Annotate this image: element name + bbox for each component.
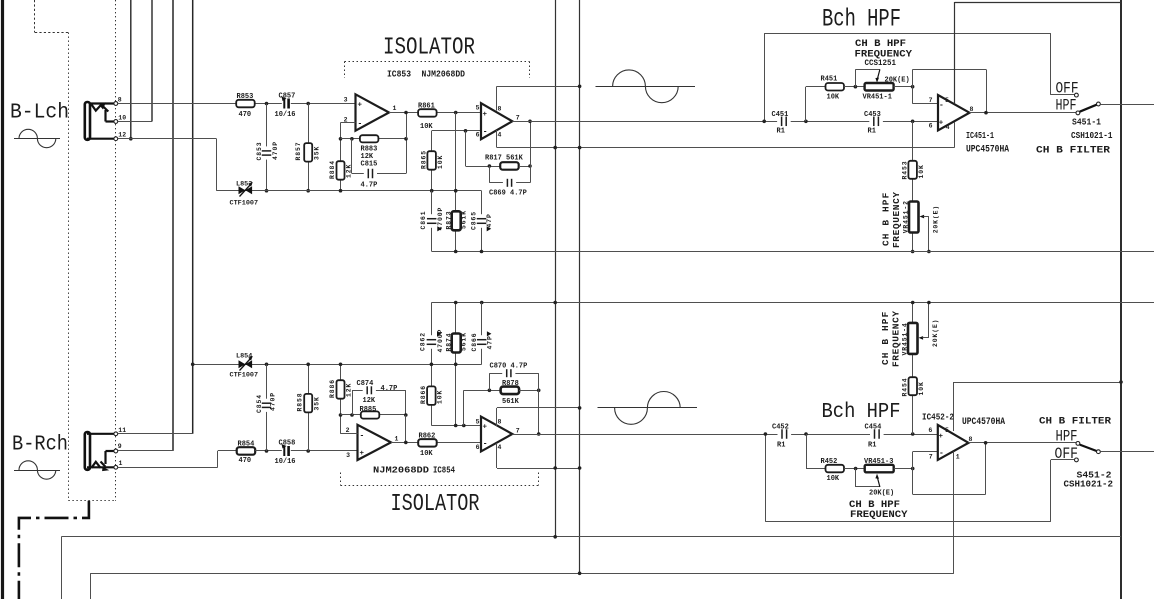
wire R451 to VR451-1 [844,86,865,88]
node dot C874 left [350,413,354,417]
wire output4 column [538,390,540,434]
wire pin12 line east [118,138,217,140]
wire R865 column [431,131,433,191]
wire op1 inverting input [341,122,356,124]
svg-text:NJM2068DD: NJM2068DD [422,70,466,80]
capacitor C865 47P [471,211,494,231]
supply vertical x=555.2 [555,0,557,537]
resistor R874 561K [445,332,467,352]
svg-text:10K: 10K [918,381,925,395]
node dot bus3 x555 [553,301,557,305]
pin 6 label [476,132,480,139]
pin 5 label ic452 [945,427,949,434]
wire R454 column [912,303,914,435]
resistor R452 10K [821,458,845,483]
svg-text:IC854: IC854 [433,466,455,476]
wire R857 column x=308.2 [308,104,310,191]
node dot C853 bottom [265,189,269,193]
wire common east bottom [1100,451,1154,453]
dotted bottom edge y=500.8 [68,500,115,502]
op-amp U-IC854b triangle [481,417,512,452]
capacitor C861 4700P column [431,191,433,252]
wire R866 column [431,303,433,426]
svg-text:C865: C865 [471,211,478,230]
wire R453 column [912,121,914,251]
label CH B HPF bottom [849,499,900,511]
capacitor C854 470P [256,392,277,413]
pin 1 label [119,460,123,467]
pin 5 label [945,97,949,104]
svg-text:CTF1007: CTF1007 [230,372,259,380]
svg-text:10/16: 10/16 [275,458,296,466]
plus sign ic452 [939,433,944,441]
svg-text:7: 7 [929,97,933,104]
svg-text:C815: C815 [361,160,378,168]
wire VR451-1 right [894,86,913,88]
trimmer coil L854 CTF1007 [230,353,259,380]
svg-text:1: 1 [393,105,397,112]
svg-text:5: 5 [945,97,949,104]
pin 9 label [118,443,122,450]
svg-text:6: 6 [476,444,480,451]
resistor R862 10K [418,432,437,458]
wire op2 inverting line y=130.8 [432,130,481,132]
svg-text:C857: C857 [279,93,296,101]
pin 8 stub up [496,86,498,110]
wire R817 right [519,166,530,168]
dotted vertical x=68.4 [68,33,70,501]
svg-text:CSH1021-1: CSH1021-1 [1071,131,1113,141]
label ISOLATOR top [383,35,475,62]
wire C853 column x=266.5 [266,104,268,191]
svg-text:NJM2068DD: NJM2068DD [373,466,430,476]
svg-text:B-Lch: B-Lch [10,102,69,125]
trimmer VR451-4 [901,319,939,356]
svg-text:C452: C452 [772,424,789,432]
op-amp U-IC854a triangle [358,425,392,460]
svg-text:5: 5 [476,418,480,425]
node dot R451 riser [804,120,808,124]
label FREQUENCY rotated bottom [891,310,902,367]
node dot at x=455.7 [454,111,458,115]
svg-text:FREQUENCY: FREQUENCY [891,191,902,248]
svg-text:-: - [358,119,363,128]
svg-text:7: 7 [516,115,520,122]
capacitor C857 (electrolytic) [275,93,296,119]
node dot C870 left [488,389,492,393]
dotted box ISOLATOR top [345,62,530,79]
svg-text:R873: R873 [445,211,452,230]
capacitor C870 4.7P [490,362,528,377]
svg-text:VR451-4: VR451-4 [901,322,908,355]
svg-text:R878: R878 [502,380,519,388]
wire pin7 line bottom [913,451,938,453]
svg-text:8: 8 [970,106,974,113]
resistor R883 12K [360,135,379,168]
node dot at C853 top [265,102,269,106]
wire riser to R854 line [218,451,237,468]
node dot feedback3 tee [339,413,343,417]
jack J-BL pin 8 lead [90,102,114,104]
svg-text:561K: 561K [502,398,520,406]
label CSH1021-1 [1071,131,1113,141]
label B-Lch [10,102,69,125]
svg-text:11: 11 [118,427,126,434]
op-amp U-IC853b triangle [481,103,512,139]
resistor R884 12K [329,160,353,180]
minus sign op1 [358,119,363,128]
wire rail y=382 [954,382,1121,384]
wire feedback3 to output [405,415,407,442]
svg-text:8: 8 [498,105,502,112]
svg-text:C451: C451 [772,111,789,119]
pin 5 stub ic452 [953,382,955,431]
node dot V+ rail x579 [578,85,582,89]
trimmer coil L853 CTF1007 [230,181,259,208]
svg-text:9: 9 [118,443,122,450]
pin 7 label [516,115,520,122]
wire main signal y=103.5 [118,103,356,105]
svg-text:3: 3 [346,452,350,459]
capacitor C861 plates [420,207,444,232]
wire ground bus y=190.7 [217,190,482,192]
svg-text:R886: R886 [329,379,336,398]
svg-text:35K: 35K [314,396,321,410]
wire V- rail bottom y=468 [497,468,580,470]
minus sign op4 [483,440,488,449]
svg-text:R866: R866 [420,385,427,404]
node dot feedback tee [339,137,343,141]
svg-text:C853: C853 [256,142,263,161]
wire vertical x=173 to pin9 line [172,0,174,451]
dotted box ISOLATOR bottom [341,473,539,486]
pin 2 label [344,116,348,123]
pin 11 label [118,427,126,434]
node dot wiper tee [854,85,858,89]
svg-text:VR451-1: VR451-1 [863,93,892,101]
svg-text:FREQUENCY: FREQUENCY [855,49,913,61]
label CH B HPF top [855,38,906,50]
pin 7 label op4 [516,427,520,434]
label HPF bottom [1056,428,1078,446]
svg-text:+: + [939,120,944,128]
pin 1 circle [114,465,118,469]
svg-text:R817 561K: R817 561K [485,154,524,162]
plus sign op1 [358,101,363,109]
wire pin7 line [913,103,938,105]
wire R886 column [340,364,342,434]
capacitor C865 column [481,191,483,252]
label FREQUENCY top [855,49,913,61]
node dot R858 top [306,363,310,367]
svg-text:4: 4 [498,444,502,451]
wire column x=455.7 down [455,113,457,212]
svg-text:1: 1 [119,460,123,467]
svg-text:CTF1007: CTF1007 [230,200,259,208]
pin 4 stub down [496,130,498,148]
svg-text:C858: C858 [279,440,296,448]
label FREQUENCY bottom [850,509,908,521]
resistor R865 10K [420,150,443,170]
resistor R886 12K [329,379,353,399]
dotted vertical x=115.8 (jack ground trace) [115,0,117,501]
svg-text:-: - [483,440,488,449]
wire pin10 to x=152 [118,121,152,123]
sine symbol B-Lch [14,129,60,147]
svg-text:470: 470 [239,111,252,119]
svg-text:7: 7 [516,427,520,434]
svg-text:R858: R858 [296,393,303,412]
svg-text:10/16: 10/16 [275,111,296,119]
trimmer arrow VR451-2 [920,215,929,252]
contact common circle bottom [1097,450,1101,454]
svg-text:10K: 10K [420,450,433,458]
node dot C869 left [488,164,492,168]
svg-text:FREQUENCY: FREQUENCY [850,509,908,521]
wire R452 riser [806,434,826,469]
label ISOLATOR bottom [391,491,480,518]
pin 6 label [929,123,933,130]
svg-text:+: + [360,450,365,458]
pin 8 label op4 [498,418,502,425]
pin 3 label [346,452,350,459]
svg-text:CH B HPF: CH B HPF [881,192,892,246]
wire feedback up to output [406,113,408,139]
svg-text:470: 470 [239,457,252,465]
svg-text:R1: R1 [777,127,785,135]
label S451-2 [1077,471,1112,481]
svg-text:C454: C454 [865,424,882,432]
svg-text:R861: R861 [418,102,435,110]
svg-text:20K(E): 20K(E) [932,205,939,233]
pin 10 label [118,115,126,122]
node dot C815 left [350,137,354,141]
wire OFF corner [1051,33,1075,95]
label CH B HPF rotated bottom [880,311,891,365]
wire main line y=121.3 east [512,121,938,123]
contact HPF circle [1076,111,1080,115]
resistor R873 561K [445,210,467,230]
wire pin11 line [118,433,193,435]
wire IC451 output [970,112,1076,114]
svg-text:561K: 561K [461,332,468,351]
svg-text:5: 5 [476,104,480,111]
svg-text:47P: 47P [486,213,493,227]
pin 4 label [946,124,950,131]
contact OFF circle [1075,93,1079,97]
svg-text:6: 6 [476,132,480,139]
pin 12 label [118,132,126,139]
node dot x455 bus1 [454,189,458,193]
svg-text:B-Rch: B-Rch [12,434,68,457]
svg-text:8: 8 [498,418,502,425]
label CSH1021-2 [1064,480,1114,490]
capacitor C866 47P [471,331,494,351]
pin 5 label op4 [476,418,480,425]
label NJM2068DD IC854 [373,466,455,476]
trimmer arrow VR451-3 [875,474,880,487]
wire C870 branch [489,373,538,390]
label Bch HPF top [822,5,901,34]
node dot R817 right [528,164,532,168]
minus sign ic452 [939,449,944,458]
svg-text:5: 5 [945,427,949,434]
wire wiper loop bottom [856,469,880,488]
contact HPF circle bottom [1076,442,1080,446]
svg-text:C861: C861 [420,211,427,230]
svg-text:561K: 561K [461,210,468,229]
node dot VR2 wiper bus [927,250,931,254]
svg-text:C870 4.7P: C870 4.7P [490,362,528,370]
wire vertical x=192.7 to pin11 line [192,0,194,434]
wire V+ rail y=86.3 [497,86,580,88]
wire OFF bypass bottom [765,434,1050,522]
wire OFF bypass top [764,33,1051,121]
wire feedback y=138.8 [341,138,407,140]
wire wiper loop [855,69,880,86]
node dot main bottom x912 [911,432,915,436]
resistor R454 10K [902,377,925,396]
plus sign ic451 [939,120,944,128]
trimmer VR451-1 20K(E) [863,77,910,102]
node dot R452 riser [804,432,808,436]
svg-text:10K: 10K [420,123,433,131]
pin 8 label [970,106,974,113]
op-amp U-IC853a triangle [356,94,390,130]
node dot V-b x579 [578,466,582,470]
svg-text:IC853: IC853 [387,70,411,80]
node dot bus4 x192 [191,363,195,367]
node dot V- x555 [553,146,557,150]
wire line A y=536.8 [61,537,1121,599]
pin 3 label [344,97,348,104]
svg-text:20K(E): 20K(E) [885,77,910,85]
wire R884 column x=340.5 [340,123,342,191]
svg-text:8: 8 [118,97,122,104]
wire riser x=216.5 to ground bus [216,139,218,191]
supply vertical x=579.6 [579,0,581,573]
svg-text:10: 10 [118,115,126,122]
svg-text:4: 4 [946,124,950,131]
node dot main x912 [911,120,915,124]
svg-text:10K: 10K [827,93,840,101]
wire C854 column [266,364,268,451]
node dot VR4 bus3 [911,301,915,305]
pin 4 label op4 [498,444,502,451]
label UPC4570HA [966,144,1009,155]
node dot at R857 top [306,102,310,106]
svg-text:4: 4 [498,132,502,139]
svg-text:L853: L853 [236,181,252,189]
label C874 [357,380,398,393]
svg-text:10K: 10K [827,475,840,483]
wire V- rail y=147.6 [497,147,955,149]
pin 12 circle [114,137,118,141]
pin 8 circle [114,102,118,106]
node dot bus3 C866 [480,301,484,305]
svg-text:R454: R454 [902,378,909,397]
pin 10 circle [114,120,118,124]
svg-text:-: - [360,431,365,440]
wire output2 column down [530,121,532,166]
wire feedback top loop [913,69,987,112]
svg-text:CSH1021-2: CSH1021-2 [1064,480,1114,490]
svg-text:35K: 35K [314,146,321,160]
minus sign op3 [360,431,365,440]
wire column x=455.7 bottom [455,303,457,426]
svg-text:C866: C866 [471,333,478,352]
sine symbol bottom [598,392,698,425]
node dot wiper tee bottom [854,467,858,471]
svg-text:IC451-1: IC451-1 [966,130,994,141]
node dot lineA x555 [553,535,557,539]
svg-text:-: - [939,101,944,110]
wire bus3 y=302.5 [431,302,1154,304]
pin 6 label op4 [476,444,480,451]
pin 4 stub op4 [496,443,498,468]
wire op3 inverting input [341,433,358,435]
svg-text:R453: R453 [901,161,908,180]
pin 1 label ic452 [956,453,960,460]
node dot output3 tap [404,441,408,445]
node dot x455 bus4 [454,363,458,367]
label CH B HPF rotated [881,192,892,246]
node dot output4 [537,432,541,436]
svg-text:6: 6 [929,123,933,130]
wire C874 branch [352,390,406,415]
pin 8 stub op4 [496,408,498,426]
capacitor C452 [772,424,791,450]
label CH B FILTER top [1036,144,1111,156]
pin 9 circle [114,449,118,453]
svg-text:470P: 470P [269,392,276,411]
wire C815 branch [352,139,407,174]
svg-text:R1: R1 [868,127,876,135]
wire top rail y=2 [955,2,1122,4]
jack J-BL pin 10 lead [106,110,114,122]
wire R878 left column [464,390,502,425]
node dot R884 bottom [339,189,343,193]
trimmer VR451-3 20K(E) [864,458,894,498]
label OFF top [1056,80,1079,98]
wire R452 to VR451-3 [844,468,865,470]
svg-text:L854: L854 [236,353,252,361]
pin 8 label [118,97,122,104]
trimmer arrow VR451-4 [919,303,929,340]
svg-text:R884: R884 [329,160,336,179]
pin 1 label [395,436,399,443]
resistor R878 561K [501,380,520,406]
node dot R866 bus4 [430,363,434,367]
pin 4 label [498,132,502,139]
label Bch HPF bottom [822,401,901,424]
node dot R817 tee [464,129,468,133]
capacitor C454 [865,424,884,450]
wire main line bottom y=434 [512,434,938,436]
wire vertical x=130.8 to pin12 node [129,0,133,141]
svg-text:4.7P: 4.7P [381,385,398,393]
label UPC4570HA bottom [962,417,1005,428]
svg-text:HPF: HPF [1056,428,1078,446]
svg-text:12: 12 [118,132,126,139]
wire R878 right [519,390,539,392]
contact common circle [1097,102,1101,106]
plus sign op2 [483,111,488,119]
resistor R854 470 [237,440,256,465]
node dot R857 bottom [306,189,310,193]
node dot feedback ic452 [984,441,988,445]
svg-text:ISOLATOR: ISOLATOR [391,491,480,518]
